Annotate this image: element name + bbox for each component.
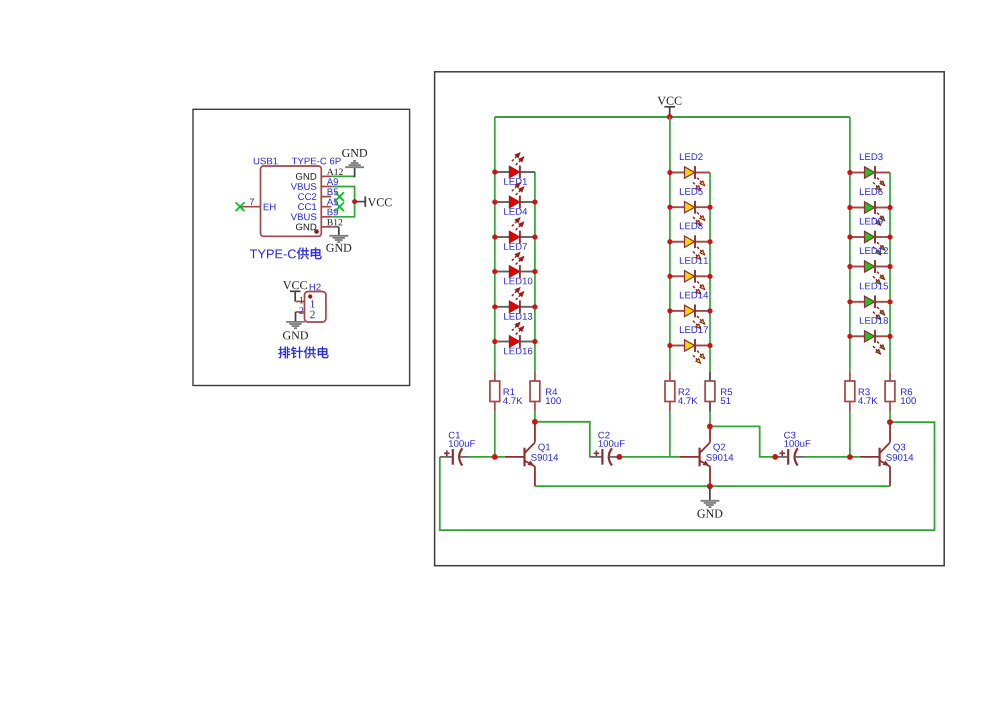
pin number 2 [299,307,303,314]
wire base lead Q3 [860,456,880,458]
junction Q2 collector [707,424,713,430]
junction Q1 base node [492,454,498,460]
junction LED10 cathode [532,269,537,274]
resistor R1 [490,372,523,412]
header H2 body [305,292,326,323]
LED LED2 [670,153,710,190]
wire emitter Q2 [709,466,711,486]
pin name VBUS [291,183,317,190]
junction LED11 anode [667,274,672,279]
LED LED8 [670,222,710,259]
LED LED14 [670,292,710,329]
junction at C3 [772,454,778,460]
pin B12 stub [321,226,331,228]
resistor R4 [530,372,561,412]
junction VCC rail [667,114,673,120]
junction LED17 cathode [707,343,712,348]
pin A5 stub [321,206,331,208]
junction LED9 anode [847,234,852,239]
no-connect X at pin B5 [335,192,344,201]
wire B12 to ground [331,226,339,228]
wire R2 to base node [669,412,671,457]
junction LED12 cathode [887,264,892,269]
junction LED8 anode [667,239,672,244]
ground flag (USB B12) [326,227,351,252]
wire left rail column 1 [494,117,496,372]
LED LED13 [495,288,535,320]
pin 2 stub [296,311,305,313]
LED LED1 [495,153,535,185]
wire Q2 collector to C3 [710,426,775,457]
wire R1 to base node [494,412,496,457]
wire right rail column 3 [889,173,891,372]
pin name GND [296,173,316,180]
junction LED13 anode [492,304,497,309]
label H2 [310,284,321,291]
resistor R5 [705,372,732,412]
wire emitter Q1 [534,466,536,486]
junction LED16 anode [492,339,497,344]
junction dot at GND pin [314,229,319,234]
junction LED6 anode [847,205,852,210]
wire emitter Q3 [889,466,891,486]
junction LED6 cathode [887,205,892,210]
wire feedback Q3 collector to C1 [440,422,935,530]
title TYPE-C supply [250,249,296,258]
junction GND node [707,483,713,489]
LED LED3 [850,153,890,190]
wire right rail column 1 [534,172,536,372]
junction VBUS/VCC [352,199,357,204]
pin name EH [264,204,276,211]
junction LED1 anode [492,169,497,174]
LED LED4 [495,183,535,215]
pin number 1 [300,297,304,304]
wire right rail column 2 [709,173,711,372]
connector USB1 body [261,166,322,236]
resistor R6 [885,372,916,412]
LED LED18 [850,317,890,354]
power flag VCC (H2) [283,281,307,301]
LED LED17 [670,326,710,363]
pin name VBUS [291,213,317,220]
label USB1 [254,158,278,165]
pin number A9 [327,178,338,185]
junction Q1 collector [532,419,538,425]
wire C1 to Q1 base node [470,456,505,458]
junction LED14 anode [667,308,672,313]
junction Q3 collector [887,419,893,425]
wire VBUS A9-B9 [331,187,354,217]
LED LED7 [495,218,535,250]
power flag VCC (top) [657,97,681,117]
LED LED16 [495,322,535,354]
ground flag (H2) [283,312,308,339]
LED LED12 [850,247,890,284]
pin 1 stub [296,301,305,303]
wire VCC top rail [495,116,850,118]
pin number B9 [328,209,338,216]
ground flag (USB A12) [342,149,367,177]
label TYPE-C 6P [292,158,341,165]
wire left rail column 2 [669,117,671,372]
LED LED6 [850,188,890,225]
junction Q3 base node [847,454,853,460]
LED LED15 [850,283,890,320]
junction LED15 cathode [887,299,892,304]
junction LED12 anode [847,264,852,269]
pin A12 stub [321,175,331,177]
junction LED3 anode [847,170,852,175]
junction LED13 cathode [532,304,537,309]
LED LED5 [670,188,710,225]
wire collector Q2 [709,426,711,442]
junction LED5 anode [667,205,672,210]
junction LED17 anode [667,343,672,348]
frame left panel [193,109,410,385]
pin name 2 [310,311,315,319]
frame right panel [435,72,945,566]
resistor R3 [845,372,878,412]
LED LED10 [495,252,535,284]
wire A12 to GND [331,175,354,177]
no-connect X on pin 7 [236,202,245,211]
pin number A5 [327,199,338,206]
pin number A12 [327,169,343,175]
pin B9 stub [321,216,331,218]
ground flag (emitters) [697,486,722,517]
junction at C2 [617,454,623,460]
pin name CC1 [298,203,316,210]
junction LED4 cathode [532,199,537,204]
junction LED7 cathode [532,234,537,239]
wire R6 to collector node [889,412,891,422]
transistor Q3 S9014 [880,443,914,467]
wire R3 to base node [849,412,851,457]
pin number B5 [328,188,339,195]
pin number B12 [327,219,342,225]
junction LED16 cathode [532,339,537,344]
junction LED10 anode [492,269,497,274]
junction LED11 cathode [707,274,712,279]
junction LED18 anode [847,334,852,339]
pin B5 stub [321,196,331,198]
capacitor C3 100uF [775,432,810,466]
pin name CC2 [298,193,316,200]
LED LED11 [670,257,710,294]
pin number 7 [250,199,254,205]
wire C3 to Q3 base node [805,456,859,458]
LED LED9 [850,218,890,255]
junction LED5 cathode [707,205,712,210]
power flag VCC (USB) [355,196,392,207]
wire Q1 collector to C2 [535,422,590,457]
no-connect X at pin A5 [335,202,344,211]
wire R5 to collector node [709,412,711,427]
wire base lead Q2 [680,456,700,458]
wire collector Q3 [889,422,891,442]
transistor Q1 S9014 [525,443,559,467]
title pin-header supply [278,347,328,359]
junction LED15 anode [847,299,852,304]
wire emitter rail [535,485,890,487]
resistor R2 [665,372,698,412]
wire left rail column 3 [849,117,851,372]
junction LED14 cathode [707,308,712,313]
junction LED4 anode [492,199,497,204]
pin name GND [296,223,316,230]
junction LED9 cathode [887,234,892,239]
pin A9 stub [321,186,331,188]
wire C2 to Q2 base node [619,456,680,458]
junction LED7 anode [492,234,497,239]
capacitor C2 100uF [589,432,624,466]
pin 7 EH stub [240,206,261,208]
transistor Q2 S9014 [700,443,734,467]
junction LED18 cathode [887,334,892,339]
wire base lead Q1 [505,456,525,458]
junction LED2 anode [667,170,672,175]
wire collector Q1 [534,422,536,443]
capacitor C1 100uF [440,432,475,466]
pin name 1 [311,300,315,308]
junction LED8 cathode [707,239,712,244]
wire R4 to collector node [534,412,536,422]
pin-1 marker dot [308,294,312,298]
